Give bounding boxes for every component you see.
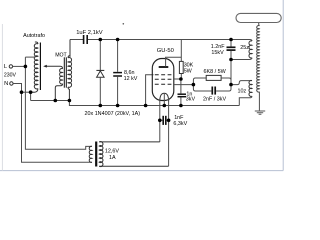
junction screen-30K-1n: [179, 77, 183, 81]
junction 1.2nF bottom: [229, 58, 233, 62]
terminal N: [10, 82, 13, 85]
node bottom rail left segment: [31, 100, 70, 102]
capacitor C5 1.2nF 15kV: [230, 40, 232, 47]
svg-text:25z: 25z: [240, 45, 249, 51]
junction L input: [24, 65, 28, 69]
capacitor C3 1n 3kV: [180, 79, 182, 93]
diode D1 stack: [99, 40, 101, 71]
junction rail-1.2nF top: [229, 38, 233, 42]
transformer T1 variac core: [39, 43, 41, 91]
tube U1 GU-50 envelope: [152, 59, 174, 101]
ground symbol: [255, 110, 265, 112]
wire L tap: [25, 56, 35, 58]
svg-text:2nF / 3kV: 2nF / 3kV: [203, 97, 226, 103]
junction grid-left node: [192, 83, 196, 87]
variac coil bottom hook: [31, 89, 38, 93]
junction rail-1n cap: [179, 104, 183, 108]
svg-text:12,6V: 12,6V: [105, 148, 119, 154]
junction rail-diode bottom: [99, 104, 103, 108]
svg-text:1A: 1A: [109, 155, 116, 161]
capacitor C4 2nF 3kV branch: [193, 85, 211, 91]
tube cathode lead: [163, 93, 165, 106]
resistor R1 30K 5W body: [179, 61, 183, 73]
MOT primary top hook + wiper line: [46, 66, 63, 69]
svg-text:MOT: MOT: [55, 53, 67, 59]
junction variac bottom: [29, 90, 33, 94]
terminal L: [9, 65, 12, 68]
stray mark: [123, 23, 125, 25]
transformer T2 MOT secondary coil: [68, 57, 72, 87]
variac coil top hook: [35, 42, 38, 44]
capacitor C2 8,6n 12kV: [117, 40, 119, 72]
frame border right: [282, 0, 284, 171]
transformer T2 MOT core: [63, 57, 65, 87]
tube filament: [160, 93, 169, 101]
MOT primary bottom hook: [55, 84, 62, 101]
frame border left faint: [1, 24, 3, 171]
resistor R2 6K8 5W branch: [193, 78, 206, 85]
transformer T3 heater primary coil: [89, 146, 92, 162]
wire grid line: [174, 78, 181, 80]
wire 1.2nF bottom node to grid network: [230, 60, 232, 85]
coil L1 25z feedback: [231, 40, 252, 42]
junction grid-right node: [229, 83, 233, 87]
junction MOT secondary bottom: [68, 99, 72, 103]
MOT secondary top lead: [68, 40, 70, 58]
wire L vertical feed (to tap and heater): [25, 57, 92, 149]
transformer T1 variac coil: [34, 44, 38, 89]
svg-text:GU-50: GU-50: [157, 48, 174, 54]
transformer T3 core: [95, 142, 97, 167]
capacitor C1 1uF 2,1kV: [83, 35, 85, 44]
coil secondary tesla: [258, 23, 261, 26]
heater secondary bottom lead: [99, 165, 168, 167]
svg-text:6,3kV: 6,3kV: [173, 121, 187, 127]
svg-text:5W: 5W: [184, 69, 193, 75]
junction 1nF left: [158, 119, 162, 123]
coil L2 10z primary: [231, 81, 252, 85]
junction rail-8,6n bottom: [116, 104, 120, 108]
transformer T3 heater secondary coil: [99, 142, 103, 167]
svg-text:6K8 / 5W: 6K8 / 5W: [204, 69, 227, 75]
junction rail-cathode: [163, 104, 167, 108]
junction rail-8,6n: [116, 38, 120, 42]
svg-text:1uF 2,1kV: 1uF 2,1kV: [76, 30, 103, 36]
svg-text:12 kV: 12 kV: [124, 76, 138, 82]
svg-text:10z: 10z: [238, 88, 247, 94]
topload toroid: [236, 13, 281, 22]
wire N vertical to heater: [22, 92, 93, 162]
junction MOT primary bottom: [54, 99, 58, 103]
svg-text:Autotrafo: Autotrafo: [23, 33, 45, 39]
tube anode lead: [166, 57, 182, 66]
wire secondary bottom to ground: [258, 92, 260, 111]
transformer T2 MOT primary coil: [60, 68, 63, 84]
MOT secondary bottom hook: [68, 87, 69, 101]
svg-text:230V: 230V: [4, 72, 17, 78]
wire N feed: [13, 84, 21, 93]
wire grid3 return (tube left to bottom rail): [146, 75, 154, 106]
wire variac bottom junction down to rail: [30, 92, 32, 100]
resistor R1 30K 5W feed from rail: [180, 40, 182, 62]
junction rail-grid3 return: [144, 104, 148, 108]
junction dots: [20, 38, 233, 122]
node top rail (B+ rail): [70, 39, 83, 41]
MOT wiper arrowhead: [43, 65, 47, 68]
svg-text:20x 1N4007 (20kV, 1A): 20x 1N4007 (20kV, 1A): [85, 111, 141, 117]
tube filament legs: [159, 99, 161, 142]
svg-text:3kV: 3kV: [186, 97, 196, 103]
frame border bottom: [0, 170, 283, 172]
svg-text:N: N: [4, 81, 8, 87]
junction N input: [20, 90, 24, 94]
tube grid rows (dashed): [155, 74, 172, 76]
svg-text:15kV: 15kV: [211, 50, 224, 56]
svg-text:1.2nF: 1.2nF: [211, 44, 225, 50]
tube anode plate: [159, 66, 169, 68]
capacitor C6 1nF 6,3kV: [160, 119, 163, 121]
junction rail-diode: [99, 38, 103, 42]
heater secondary top lead: [99, 141, 160, 143]
wire MOT secondary top to rail: [69, 40, 71, 58]
node bottom rail (cathode rail): [69, 101, 239, 106]
junction 1nF right: [167, 119, 171, 123]
